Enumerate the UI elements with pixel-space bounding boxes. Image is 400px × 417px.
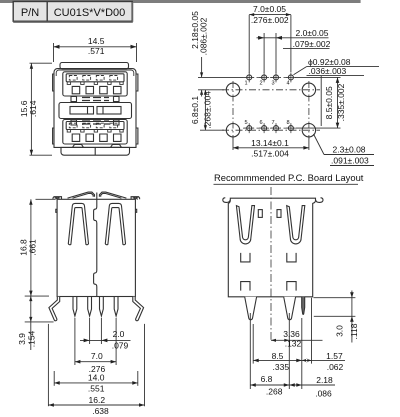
centerline with jogs: [94, 193, 97, 297]
svg-text:3.0: 3.0: [335, 325, 345, 337]
body outline: [228, 198, 315, 297]
svg-text:2: 2: [260, 81, 263, 87]
mid squares: [241, 253, 296, 262]
usb front: top tab: [60, 63, 129, 69]
body outline: [57, 199, 135, 296]
svg-text:14.5: 14.5: [88, 36, 105, 46]
svg-text:.638: .638: [92, 406, 109, 416]
svg-text:.268: .268: [266, 386, 283, 396]
svg-text:6: 6: [260, 120, 263, 126]
port 2 opening: [63, 120, 127, 145]
small top rects: [258, 210, 262, 218]
svg-text:.517±.004: .517±.004: [251, 149, 289, 159]
row below band: [71, 120, 119, 125]
svg-text:.086±.002: .086±.002: [199, 17, 209, 55]
front peg: [245, 297, 257, 320]
svg-text:.132: .132: [285, 339, 302, 349]
svg-text:1: 1: [245, 81, 248, 87]
top border bar: [0, 0, 361, 3]
row between: latch bits: [71, 97, 119, 102]
dim 2.3 leader: [314, 134, 325, 155]
P/N title block: [13, 2, 133, 22]
svg-text:Recommmended P.C. Board Layout: Recommmended P.C. Board Layout: [214, 172, 364, 183]
usb front: outer shell: [54, 69, 136, 148]
svg-text:.086: .086: [315, 388, 332, 398]
dims of bottom-right view: [250, 291, 359, 399]
pin holes top row: [247, 75, 294, 131]
center dashdot lines: [222, 77, 320, 139]
svg-text:.154: .154: [26, 330, 36, 347]
extension line right of pin field: [320, 76, 322, 126]
svg-text:8.5: 8.5: [272, 351, 284, 361]
svg-text:.276±.002: .276±.002: [251, 15, 289, 25]
svg-text:.062: .062: [327, 362, 344, 372]
svg-text:.268±.004: .268±.004: [202, 91, 212, 129]
dims of bottom-left view: [17, 199, 145, 416]
svg-text:.079: .079: [112, 340, 129, 350]
svg-text:1.57: 1.57: [326, 351, 343, 361]
dim 16.2 / .638: [47, 324, 49, 406]
pin numbers: [245, 81, 290, 127]
svg-text:6.8: 6.8: [261, 374, 273, 384]
dim 13.14: [232, 138, 234, 151]
side dimples: [56, 209, 137, 212]
port 2 tongue w slots: [66, 122, 124, 130]
middle band slots: [70, 107, 94, 115]
svg-text:5: 5: [245, 120, 248, 126]
port 1 contact holes: [72, 86, 121, 93]
mounting legs: [49, 297, 60, 321]
svg-text:.614: .614: [28, 100, 38, 117]
svg-text:.335: .335: [273, 362, 290, 372]
dim 16.8 / .661: [36, 198, 56, 200]
svg-text:.079±.002: .079±.002: [293, 39, 331, 49]
svg-text:13.14±0.1: 13.14±0.1: [251, 138, 289, 148]
dim 14.5 / .571: [54, 36, 137, 62]
left ext lines: [198, 76, 244, 78]
svg-text:.036±.003: .036±.003: [309, 66, 347, 76]
svg-text:3: 3: [272, 81, 275, 87]
left spring contact: [68, 203, 88, 244]
dim 8.5 rotated right: [295, 76, 341, 78]
dim 15.6 / .614: [19, 63, 52, 155]
pin ext lines: [74, 318, 76, 365]
svg-text:7.0: 7.0: [91, 351, 103, 361]
svg-text:CU01S*V*D00: CU01S*V*D00: [54, 7, 126, 19]
svg-text:8: 8: [287, 120, 290, 126]
pin crosshair ticks: [244, 72, 296, 133]
svg-text:7: 7: [272, 120, 275, 126]
top tent bumps: [68, 192, 95, 198]
svg-text:3.36: 3.36: [283, 329, 300, 339]
middle band: [59, 103, 132, 119]
svg-text:14.0: 14.0: [88, 373, 105, 383]
back pin: [302, 297, 305, 315]
dim 3.0 / .118 right: [314, 297, 356, 299]
dim 3.9 / .154: [25, 295, 49, 297]
top corner tabs: [53, 197, 62, 200]
svg-text:.551: .551: [88, 384, 105, 394]
dim 14.0 / .551: [53, 371, 55, 386]
vertical centerline dashdot: [270, 187, 272, 340]
svg-text:.571: .571: [88, 46, 105, 56]
svg-text:.661: .661: [27, 239, 37, 256]
port 1 opening: [63, 72, 127, 96]
svg-text:16.2: 16.2: [89, 395, 106, 405]
left V spring: [236, 206, 254, 244]
pins: [73, 297, 77, 317]
shell side ears: [53, 74, 138, 144]
port 2 contact holes: [72, 134, 121, 141]
top corner hooks: [223, 198, 230, 203]
large holes: [226, 83, 315, 137]
svg-text:2.0±0.05: 2.0±0.05: [295, 28, 328, 38]
right spring contact: [105, 203, 125, 244]
back peg: [284, 297, 296, 320]
shell bottom plate: [61, 147, 130, 155]
svg-text:8.5±0.05: 8.5±0.05: [324, 86, 334, 119]
bottom tabs: [73, 144, 122, 147]
svg-text:2.0: 2.0: [113, 329, 125, 339]
port 1 tongue w slots: [66, 74, 124, 82]
svg-text:6.8±0.1: 6.8±0.1: [190, 96, 200, 125]
svg-text:.091±.003: .091±.003: [331, 156, 369, 166]
svg-text:3.9: 3.9: [17, 333, 27, 345]
svg-text:P/N: P/N: [21, 7, 39, 19]
lower squares: [241, 282, 296, 291]
svg-text:2.18: 2.18: [316, 375, 333, 385]
ext lines below: [249, 313, 251, 389]
svg-text:7.0±0.05: 7.0±0.05: [253, 4, 286, 14]
svg-text:.118: .118: [349, 323, 359, 339]
svg-text:4: 4: [287, 81, 290, 87]
svg-text:.335±.002: .335±.002: [336, 83, 346, 121]
svg-text:2.3±0.08: 2.3±0.08: [333, 144, 366, 154]
right V spring: [287, 206, 305, 244]
